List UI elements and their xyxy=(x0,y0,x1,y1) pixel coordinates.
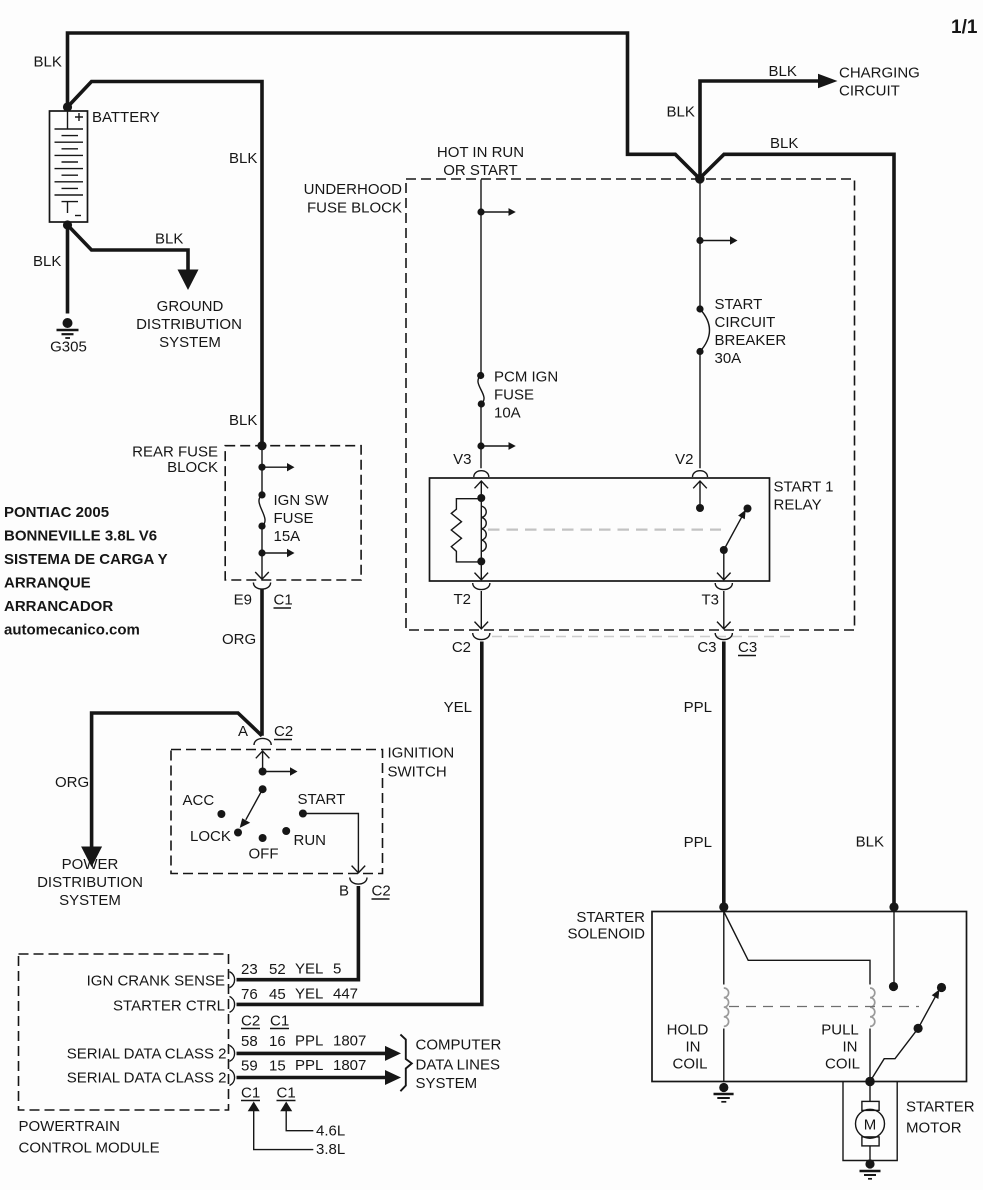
svg-text:FUSE BLOCK: FUSE BLOCK xyxy=(307,200,402,217)
wire inside rear fuse block xyxy=(261,446,263,553)
wire PPL serial data row4 xyxy=(237,1076,386,1080)
svg-text:PCM IGN: PCM IGN xyxy=(494,369,558,386)
svg-text:4.6L: 4.6L xyxy=(316,1123,345,1140)
svg-text:REAR FUSE: REAR FUSE xyxy=(132,444,218,461)
wire hold in coil branch xyxy=(723,912,725,1082)
pin socket row2 xyxy=(230,996,235,1012)
svg-text:C1: C1 xyxy=(277,1085,296,1102)
svg-text:A: A xyxy=(238,723,248,740)
solenoid switch arm xyxy=(918,997,935,1029)
node hold coil ground xyxy=(719,1083,728,1092)
connector cap V3 xyxy=(474,471,489,477)
connector cap A C2 xyxy=(254,738,271,745)
svg-text:BONNEVILLE 3.8L V6: BONNEVILLE 3.8L V6 xyxy=(4,528,157,545)
node tap arrow V3 upper xyxy=(477,208,484,215)
node motor ground xyxy=(865,1159,874,1168)
svg-text:ORG: ORG xyxy=(55,774,89,791)
node solenoid arm throw xyxy=(937,983,946,992)
motor bypass loop xyxy=(843,1082,897,1161)
ignition switch arm to LOCK xyxy=(246,789,263,820)
node main junction xyxy=(695,174,705,184)
arrow to ground distribution system xyxy=(178,270,199,291)
connector level dashed line xyxy=(492,636,790,638)
battery xyxy=(50,111,88,222)
svg-text:B: B xyxy=(339,883,349,900)
svg-text:BLK: BLK xyxy=(856,834,884,851)
svg-text:CIRCUIT: CIRCUIT xyxy=(839,83,900,100)
svg-text:SERIAL DATA CLASS 2: SERIAL DATA CLASS 2 xyxy=(67,1046,227,1063)
svg-text:23: 23 xyxy=(241,961,258,978)
svg-text:SYSTEM: SYSTEM xyxy=(59,892,121,909)
svg-text:STARTER CTRL: STARTER CTRL xyxy=(113,998,225,1015)
svg-text:V2: V2 xyxy=(675,451,693,468)
svg-text:30A: 30A xyxy=(715,350,742,367)
svg-text:POWER: POWER xyxy=(62,856,119,873)
rear fuse block box xyxy=(225,446,361,580)
node position OFF xyxy=(259,834,267,842)
wire pull in coil branch xyxy=(724,912,870,1082)
svg-text:OR START: OR START xyxy=(443,162,517,179)
svg-text:G305: G305 xyxy=(50,339,87,356)
relay switch arm xyxy=(724,517,742,550)
svg-text:SWITCH: SWITCH xyxy=(388,764,447,781)
node tap with arrow lower xyxy=(258,549,265,556)
relay U1 START 1 RELAY box xyxy=(430,478,770,581)
svg-text:IGN CRANK SENSE: IGN CRANK SENSE xyxy=(87,973,225,990)
svg-text:BLK: BLK xyxy=(155,231,183,248)
node ignition feed tap xyxy=(259,768,267,776)
node tap arrow V3 lower xyxy=(477,442,484,449)
wire ORG rear fuse to ignition switch xyxy=(260,590,264,736)
underhood fuse block box xyxy=(406,179,855,630)
svg-text:C2: C2 xyxy=(274,723,293,740)
svg-text:GROUND: GROUND xyxy=(157,298,224,315)
svg-text:C1: C1 xyxy=(270,1013,289,1030)
svg-text:MOTOR: MOTOR xyxy=(906,1120,962,1137)
node tap arrow V2 xyxy=(696,237,703,244)
arrow charging circuit xyxy=(818,74,838,88)
svg-text:1/1: 1/1 xyxy=(951,17,978,38)
svg-text:SYSTEM: SYSTEM xyxy=(159,334,221,351)
pin arrow A into ignition switch xyxy=(256,751,270,772)
svg-text:DATA LINES: DATA LINES xyxy=(416,1057,500,1074)
svg-text:LOCK: LOCK xyxy=(190,828,231,845)
connector cup C3 xyxy=(715,633,732,640)
svg-text:SOLENOID: SOLENOID xyxy=(567,926,645,943)
svg-text:BLK: BLK xyxy=(667,104,695,121)
node solenoid output xyxy=(865,1077,875,1087)
wire BLK battery negative to ground distribution xyxy=(68,225,189,270)
connector cup B C2 xyxy=(350,878,367,885)
node relay arm pivot xyxy=(720,546,728,554)
svg-text:C2: C2 xyxy=(241,1013,260,1030)
svg-text:C3: C3 xyxy=(738,639,757,656)
svg-text:C1: C1 xyxy=(274,592,293,609)
svg-text:T2: T2 xyxy=(453,591,471,608)
svg-text:5: 5 xyxy=(333,961,341,978)
node relay arm throw xyxy=(744,505,752,513)
svg-text:BLK: BLK xyxy=(769,63,797,80)
powertrain control module box xyxy=(19,954,229,1110)
wire BLK right run to starter solenoid switch xyxy=(700,154,895,907)
connector cup T3 xyxy=(715,583,732,590)
node solenoid arm pivot xyxy=(914,1024,923,1033)
ground hold coil xyxy=(714,1094,734,1102)
relay linkage dashed xyxy=(488,528,721,530)
svg-text:1807: 1807 xyxy=(333,1057,366,1074)
svg-text:15: 15 xyxy=(269,1058,286,1075)
svg-text:YEL: YEL xyxy=(295,961,323,978)
node position RUN xyxy=(282,827,290,835)
svg-text:C1: C1 xyxy=(241,1085,260,1102)
wire YEL relay T2 to PCM starter ctrl xyxy=(237,642,482,1005)
pin arrow V3 into relay xyxy=(475,481,489,498)
svg-text:447: 447 xyxy=(333,986,358,1003)
svg-text:E9: E9 xyxy=(234,592,252,609)
node relay coil top xyxy=(477,494,485,502)
solenoid linkage dashed xyxy=(729,1006,919,1008)
svg-text:BLK: BLK xyxy=(33,253,61,270)
svg-text:DISTRIBUTION: DISTRIBUTION xyxy=(136,316,242,333)
node ignition rotor pivot xyxy=(259,785,267,793)
node tap with arrow upper xyxy=(258,464,265,471)
svg-text:CONTROL MODULE: CONTROL MODULE xyxy=(19,1140,160,1157)
svg-text:FUSE: FUSE xyxy=(274,510,314,527)
ground starter motor xyxy=(860,1171,881,1179)
wire BLK battery negative to ground xyxy=(66,225,70,314)
svg-text:POWERTRAIN: POWERTRAIN xyxy=(19,1118,120,1135)
wire ORG branch to power distribution xyxy=(92,713,262,847)
svg-text:PPL: PPL xyxy=(295,1033,323,1050)
svg-text:BLK: BLK xyxy=(34,54,62,71)
wire arm to common xyxy=(870,1028,918,1081)
relay coil xyxy=(480,498,482,561)
svg-text:BLK: BLK xyxy=(229,150,257,167)
wire START to B xyxy=(303,814,365,873)
svg-text:IGN SW: IGN SW xyxy=(274,492,330,509)
connector cap V2 xyxy=(693,471,708,477)
svg-text:DISTRIBUTION: DISTRIBUTION xyxy=(37,874,143,891)
svg-text:BLK: BLK xyxy=(229,412,257,429)
svg-text:58: 58 xyxy=(241,1033,258,1050)
svg-text:HOLD: HOLD xyxy=(667,1022,709,1039)
starter solenoid box xyxy=(652,912,967,1082)
svg-text:M: M xyxy=(864,1117,877,1134)
wire PPL relay T3 to starter solenoid xyxy=(722,642,726,908)
svg-text:59: 59 xyxy=(241,1058,258,1075)
svg-text:UNDERHOOD: UNDERHOOD xyxy=(304,181,403,198)
pin socket row4 xyxy=(230,1070,235,1086)
starter motor M xyxy=(856,1101,885,1146)
title block xyxy=(4,504,168,639)
svg-text:C3: C3 xyxy=(697,639,716,656)
node relay fixed contact xyxy=(696,504,704,512)
svg-text:C2: C2 xyxy=(372,883,391,900)
wire V3 branch xyxy=(480,180,482,469)
svg-text:START: START xyxy=(298,791,346,808)
pin arrow T2 out of relay xyxy=(475,561,489,579)
node position START xyxy=(299,810,307,818)
svg-text:PULL: PULL xyxy=(821,1022,859,1039)
svg-text:BATTERY: BATTERY xyxy=(92,109,160,126)
svg-text:RELAY: RELAY xyxy=(774,497,822,514)
svg-text:STARTER: STARTER xyxy=(906,1099,975,1116)
wire T3 to C3 xyxy=(717,591,731,629)
node position LOCK xyxy=(234,829,242,837)
wire YEL ignition B to PCM ign crank sense xyxy=(237,886,359,980)
hold in coil xyxy=(724,988,729,1026)
svg-text:IGNITION: IGNITION xyxy=(388,745,455,762)
svg-text:IN: IN xyxy=(686,1039,701,1056)
svg-text:START 1: START 1 xyxy=(774,479,834,496)
wire BLK battery positive to top bus xyxy=(68,33,700,179)
svg-text:COIL: COIL xyxy=(825,1056,860,1073)
pin socket row1 xyxy=(230,972,235,988)
brace computer data lines xyxy=(400,1035,411,1092)
svg-text:COMPUTER: COMPUTER xyxy=(416,1037,502,1054)
svg-text:52: 52 xyxy=(269,961,286,978)
pin arrow E9 xyxy=(255,553,269,579)
svg-text:YEL: YEL xyxy=(295,986,323,1003)
pin arrow V2 into relay xyxy=(693,481,707,508)
svg-text:16: 16 xyxy=(269,1033,286,1050)
node PPL entry xyxy=(719,902,728,911)
node BLK entry xyxy=(889,902,898,911)
svg-text:15A: 15A xyxy=(274,528,301,545)
svg-text:1807: 1807 xyxy=(333,1033,366,1050)
circuit breaker START CIRCUIT BREAKER 30A xyxy=(696,305,703,312)
svg-text:3.8L: 3.8L xyxy=(316,1141,345,1158)
svg-text:BREAKER: BREAKER xyxy=(715,332,787,349)
fuse PCM IGN FUSE 10A xyxy=(477,372,484,379)
svg-text:V3: V3 xyxy=(453,451,471,468)
svg-text:76: 76 xyxy=(241,986,258,1003)
svg-text:ARRANCADOR: ARRANCADOR xyxy=(4,598,113,615)
wire PPL serial data row3 xyxy=(237,1052,386,1056)
ignition switch box xyxy=(171,750,383,874)
node battery positive xyxy=(63,102,72,111)
fuse IGN SW FUSE 15A xyxy=(258,491,265,498)
svg-text:ORG: ORG xyxy=(222,631,256,648)
wire T2 to C2 xyxy=(475,591,489,629)
svg-text:PPL: PPL xyxy=(684,834,712,851)
svg-text:OFF: OFF xyxy=(249,846,279,863)
connector cup C1 xyxy=(253,583,270,590)
pull in coil xyxy=(870,988,875,1026)
svg-text:STARTER: STARTER xyxy=(576,909,645,926)
node solenoid fixed contact xyxy=(889,982,898,991)
wire solenoid output to motor xyxy=(869,1082,871,1163)
svg-text:HOT IN RUN: HOT IN RUN xyxy=(437,144,524,161)
ground G305 xyxy=(57,318,79,338)
node battery negative xyxy=(63,220,72,229)
wire BLK inside solenoid xyxy=(893,912,895,987)
wire BLK to charging circuit xyxy=(700,81,818,179)
svg-text:SISTEMA DE CARGA Y: SISTEMA DE CARGA Y xyxy=(4,551,168,568)
svg-text:automecanico.com: automecanico.com xyxy=(4,622,140,639)
svg-text:SERIAL DATA CLASS 2: SERIAL DATA CLASS 2 xyxy=(67,1070,227,1087)
svg-text:ARRANQUE: ARRANQUE xyxy=(4,575,91,592)
wire V2 branch xyxy=(699,183,701,468)
svg-text:RUN: RUN xyxy=(294,832,327,849)
pin socket row3 xyxy=(230,1045,235,1061)
svg-text:BLK: BLK xyxy=(770,135,798,152)
svg-text:IN: IN xyxy=(843,1039,858,1056)
node rear fuse block feed xyxy=(257,441,266,450)
svg-text:T3: T3 xyxy=(701,592,719,609)
svg-text:PONTIAC 2005: PONTIAC 2005 xyxy=(4,504,109,521)
svg-text:CIRCUIT: CIRCUIT xyxy=(715,314,776,331)
svg-text:CHARGING: CHARGING xyxy=(839,65,920,82)
svg-text:BLOCK: BLOCK xyxy=(167,459,218,476)
svg-text:YEL: YEL xyxy=(444,699,472,716)
wire BLK battery positive to rear fuse block xyxy=(68,82,263,446)
svg-text:START: START xyxy=(715,296,763,313)
svg-text:SYSTEM: SYSTEM xyxy=(416,1075,478,1092)
svg-text:10A: 10A xyxy=(494,405,521,422)
pin arrow T3 out of relay xyxy=(717,550,731,580)
connector cup T2 xyxy=(473,583,490,590)
svg-text:45: 45 xyxy=(269,986,286,1003)
svg-text:PPL: PPL xyxy=(684,699,712,716)
arrow 3.8L to left C1 xyxy=(248,1102,260,1112)
connector cup C2 xyxy=(473,633,490,640)
svg-text:PPL: PPL xyxy=(295,1057,323,1074)
node position ACC xyxy=(217,810,225,818)
svg-text:C2: C2 xyxy=(452,639,471,656)
arrow to power distribution system xyxy=(81,847,102,868)
node relay coil bottom xyxy=(477,557,485,565)
svg-text:COIL: COIL xyxy=(672,1056,707,1073)
resistor in relay xyxy=(451,499,479,562)
svg-text:FUSE: FUSE xyxy=(494,387,534,404)
arrow 4.6L to right C1 xyxy=(280,1102,292,1112)
svg-text:ACC: ACC xyxy=(183,792,215,809)
